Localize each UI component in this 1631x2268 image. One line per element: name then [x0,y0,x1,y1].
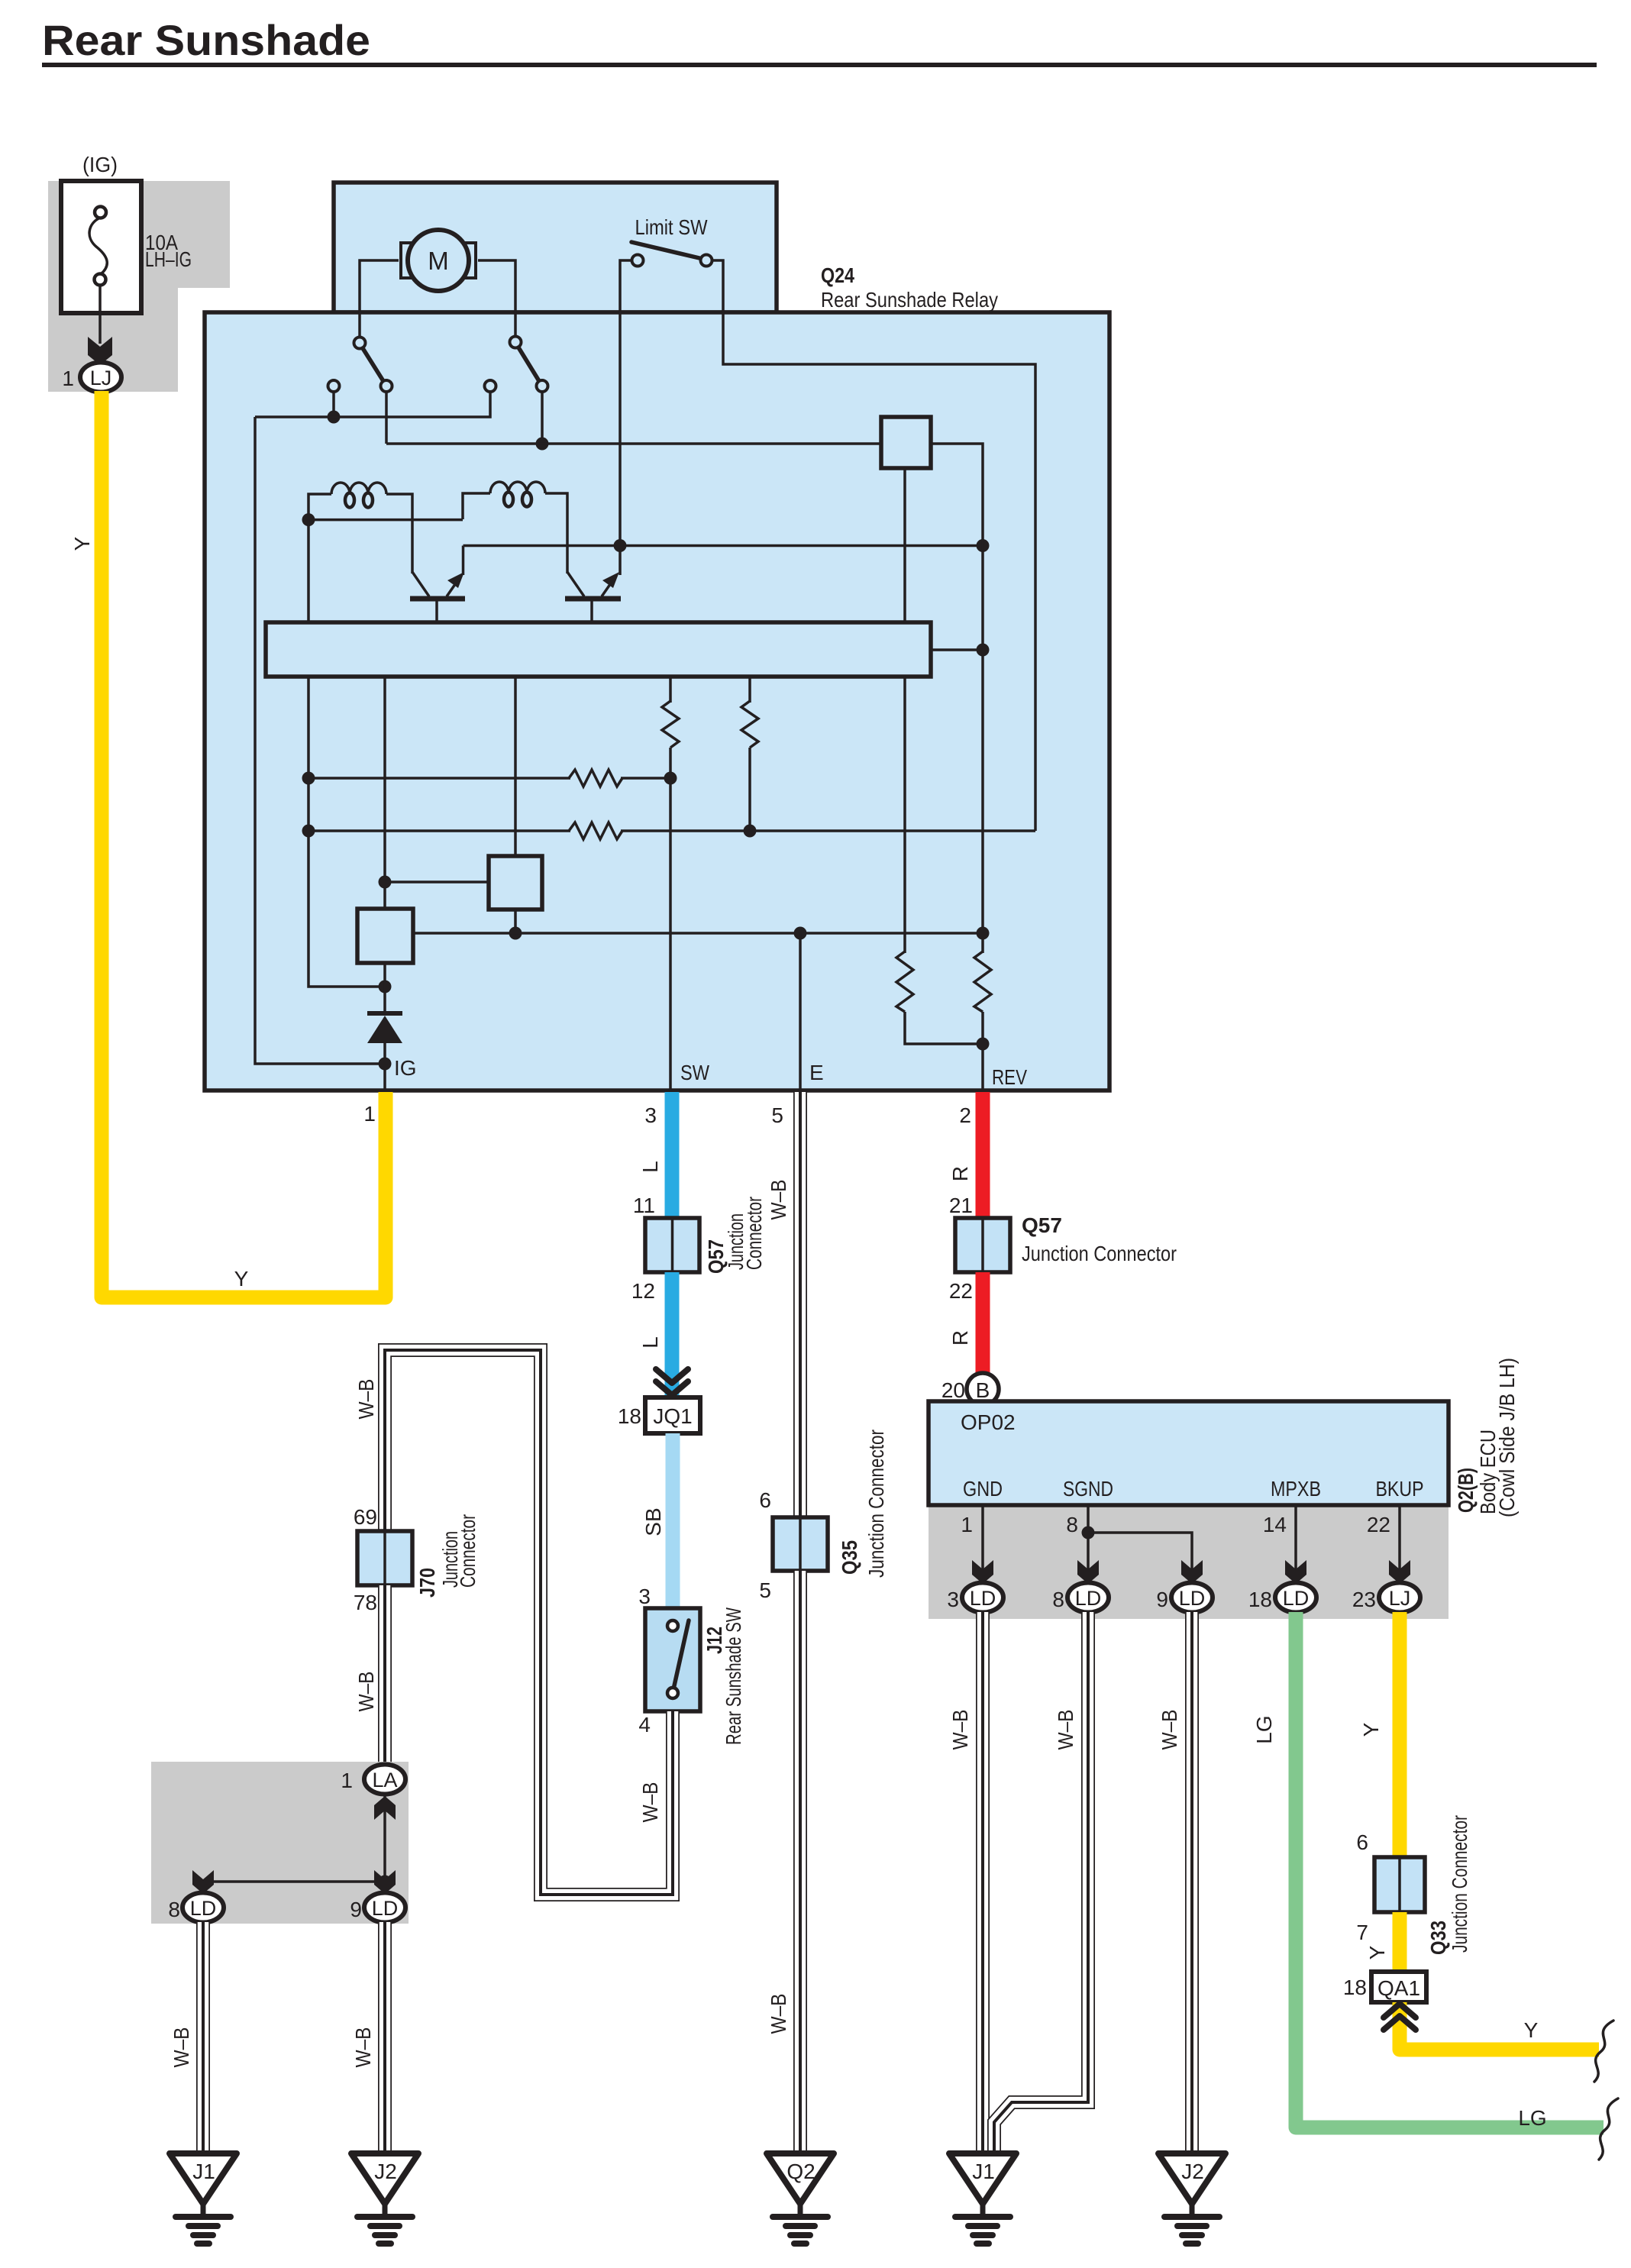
chevron arrow out of QA1 [1384,2004,1416,2030]
svg-text:J2: J2 [1181,2160,1204,2183]
svg-text:Q57: Q57 [1022,1213,1062,1237]
node IC right lead [977,644,990,657]
node B circle [967,1373,999,1405]
svg-text:L: L [638,1336,662,1349]
title underline [42,63,1597,67]
wire W-B LD8b elbow to J1 [994,1612,1088,2155]
svg-text:2: 2 [959,1103,971,1127]
svg-text:3: 3 [638,1585,651,1608]
SEC_RELAY [205,183,1109,1090]
node R2 rail1088 [744,825,757,838]
connector LJ 23 [1379,1583,1420,1613]
svg-text:5: 5 [759,1578,771,1602]
svg-text:W–B: W–B [638,1782,662,1823]
svg-text:8: 8 [168,1898,180,1921]
connector QA1 [1371,1972,1426,2002]
title: Rear Sunshade [42,16,1597,67]
svg-text:Q33: Q33 [1426,1921,1450,1955]
wire rail1222 [413,932,983,935]
svg-text:E: E [809,1061,824,1084]
svg-text:Rear Sunshade SW: Rear Sunshade SW [722,1607,745,1745]
svg-text:IG: IG [394,1056,417,1080]
svg-text:6: 6 [1356,1830,1368,1854]
svg-text:LH–IG: LH–IG [145,247,192,271]
svg-text:9: 9 [350,1898,362,1921]
svg-text:8: 8 [1052,1588,1064,1611]
svg-text:W–B: W–B [767,1994,790,2034]
svg-text:Rear Sunshade: Rear Sunshade [42,16,370,64]
node SW rail [664,772,677,785]
wire x675 IC bottom to box1 [514,677,517,858]
svg-text:1: 1 [363,1102,376,1126]
svg-text:23: 23 [1352,1588,1376,1611]
ground J2 right [1158,2153,1226,2244]
wire rail546 from left vertical to contact b2 [255,392,490,417]
wire SGND pin to LD8 [1087,1505,1090,1581]
body ECU grey area [929,1505,1449,1619]
wire R2 to rail1088 [748,748,751,832]
svg-text:Y: Y [1365,1945,1389,1959]
node rail1222 E branch [794,927,807,940]
svg-text:LJ: LJ [1389,1587,1411,1610]
wire limit-sw right contact to right side [712,260,1035,831]
svg-text:J2: J2 [374,2160,397,2183]
wire contact b1 down to rail581 [541,392,544,445]
wire SGND branch to LD9 [1088,1533,1192,1581]
wire x403 vertical from node to diode rail [308,520,385,987]
wire left vertical x334 to IG rail [255,417,385,1064]
svg-text:Q24: Q24 [821,263,854,287]
svg-text:LG: LG [1518,2106,1546,2130]
arrow into LD8 [1077,1560,1099,1584]
svg-text:Y: Y [1359,1722,1383,1737]
node emitter rail / REV vertical [977,539,990,552]
connector LD 8 [182,1893,224,1923]
node b1 on rail581 [536,438,549,451]
wire W-B LD8 to J1 [196,1922,210,2155]
node IG [379,1058,392,1071]
svg-text:Connector: Connector [456,1514,480,1588]
junction connector Q35 [773,1517,828,1571]
svg-text:18: 18 [1248,1588,1272,1611]
svg-text:W–B: W–B [948,1710,972,1750]
wire motor right to switch B [478,260,515,336]
transistor Q1 [410,546,465,625]
node rail1088 x404 [302,825,315,838]
ground Q2 [767,2153,834,2244]
svg-text:LG: LG [1252,1715,1276,1743]
wire BKUP pin to LJ23 [1398,1505,1401,1581]
svg-text:Y: Y [70,536,94,551]
svg-text:LA: LA [372,1769,397,1791]
wire contact a1 down to rail581 [385,392,388,444]
svg-text:LD: LD [970,1587,996,1610]
diode D1 [367,1013,402,1043]
svg-text:Limit SW: Limit SW [635,215,708,239]
grey junction area [151,1762,409,1924]
svg-text:Q2: Q2 [786,2160,815,2183]
relay switch A blade [363,348,383,381]
svg-text:5: 5 [771,1103,783,1127]
wire x1185 IC bottom to R5 [903,677,906,953]
wire E vertical [799,933,802,1090]
node rail1222 REV [977,927,990,940]
relay switch B contact b1 [537,380,548,392]
connector JQ1 [645,1397,700,1433]
wire branch left [203,1882,385,1892]
svg-text:W–B: W–B [351,2027,375,2068]
svg-text:Q35: Q35 [838,1540,861,1575]
svg-text:69: 69 [354,1505,377,1529]
arrow into LJ23 [1389,1560,1410,1584]
limit switch [631,215,712,267]
inductor L2 [490,482,545,507]
svg-text:M: M [428,247,449,275]
svg-text:Junction Connector: Junction Connector [864,1430,888,1578]
svg-text:W–B: W–B [170,2027,193,2068]
connector LD 8b [1067,1583,1109,1613]
wire W-B J70 to LA [378,1585,392,1765]
wire x504 IC bottom to box2 [383,677,386,910]
svg-text:MPXB: MPXB [1271,1477,1321,1501]
svg-text:Connector: Connector [742,1197,766,1270]
relay switch A contact a1 [381,380,392,392]
wire MPXB pin to LD18 [1294,1505,1297,1581]
junction connector J70 [357,1531,412,1585]
arrow into LD 9 [374,1870,396,1894]
svg-text:22: 22 [1367,1513,1390,1536]
svg-text:OP02: OP02 [961,1410,1016,1434]
svg-text:21: 21 [949,1194,973,1217]
svg-text:Rear Sunshade Relay: Rear Sunshade Relay [821,288,998,312]
fuse F 10A LH-IG box [61,181,141,313]
svg-text:3: 3 [947,1588,959,1611]
transistor Q2 [565,546,621,625]
wire rail1019 left part [308,777,570,780]
wire U2 right lead to REV vertical [931,444,983,953]
svg-text:(Cowl Side J/B LH): (Cowl Side J/B LH) [1495,1358,1519,1517]
node a2 [328,411,341,424]
wire rail1019 right part [621,777,670,780]
wire W-B LD3 to J1 [976,1612,990,2155]
connector LD 9 [364,1893,405,1923]
wire W-B LD9b to J2 [1185,1612,1199,2155]
svg-text:LD: LD [1075,1587,1102,1610]
svg-text:1: 1 [341,1769,353,1792]
wire Y yellow QA1 down and right [1400,2002,1599,2050]
node x504 rail1155 [379,876,392,889]
node U3 on rail1222 [509,927,522,940]
wire L2 left lead down to rail680 [463,493,490,519]
label Junction Connector vertical [724,1197,766,1270]
svg-text:Y: Y [234,1267,249,1291]
wire box2 bottom to diode [383,963,386,1016]
wire fuse to LJ [99,286,102,344]
arrow into LD3 [972,1560,993,1584]
relay switch B moving contact [510,337,522,348]
wire motor left to switch A [360,260,399,337]
svg-text:W–B: W–B [1158,1710,1181,1750]
node rail1019 x404 [302,772,315,785]
node R5/R6 join [977,1038,990,1051]
svg-text:3: 3 [644,1103,657,1127]
svg-text:LJ: LJ [90,367,112,389]
wire SB JQ1 to J12 [666,1433,680,1609]
svg-text:11: 11 [633,1194,655,1217]
wire rail1088 right part [621,829,1035,832]
svg-text:12: 12 [631,1279,655,1303]
wire Y yellow Q33 to QA1 [1393,1912,1407,1974]
svg-text:8: 8 [1066,1513,1078,1536]
svg-text:Q2(B): Q2(B) [1454,1468,1478,1513]
wire limit-sw left contact down [620,260,631,544]
resistor R5 [896,951,913,1012]
svg-text:J1: J1 [972,2160,995,2183]
wire W-B Q35 to ground Q2 [793,1571,807,2155]
relay switch B contact b2 [485,380,496,392]
wire IC right lead [931,648,983,651]
junction connector Q33 [1374,1857,1425,1912]
svg-text:7: 7 [1356,1921,1368,1944]
driver box U4 [357,909,413,963]
wire W-B LD9 to J2 [378,1922,392,2155]
svg-text:18: 18 [1343,1976,1367,1999]
connector LD 3 [962,1583,1003,1613]
svg-text:1: 1 [961,1513,973,1536]
svg-text:W–B: W–B [1054,1710,1077,1750]
break symbol LG [1599,2098,1618,2160]
node SGND branch [1082,1527,1095,1539]
SEC_BOTTOMRIGHT [948,1612,1618,2244]
fuse element [89,218,107,274]
wire rail1155 to U3 [385,880,489,884]
wire LG green LD18 down and right [1296,1612,1604,2127]
wire LA to node [383,1796,386,1882]
svg-text:L: L [638,1161,662,1173]
relay switch B blade [518,347,539,381]
wire rail581 to control box [386,442,881,445]
svg-text:SB: SB [641,1507,665,1536]
svg-text:1: 1 [62,367,74,390]
svg-text:REV: REV [992,1065,1027,1089]
svg-text:LD: LD [1179,1587,1206,1610]
wire U2 bottom vertical x1185 [903,468,906,622]
inductor L1 [331,483,386,508]
SEC_FUSE [48,153,230,393]
node diode top [379,981,392,993]
svg-text:Junction Connector: Junction Connector [1022,1242,1177,1265]
ground J1 left [170,2153,237,2244]
wire rail680 [308,518,463,520]
svg-text:SW: SW [680,1061,709,1084]
arrow into LD 8 [192,1870,214,1894]
svg-text:GND: GND [963,1477,1003,1501]
wire R5 bottom to REV vertical [905,1012,983,1044]
svg-text:W–B: W–B [354,1379,378,1420]
resistor R3 [569,770,622,787]
wire R1 to SW pin [669,748,672,1090]
svg-text:LD: LD [1283,1587,1310,1610]
resistor R4 [569,822,622,839]
relay switch A moving contact [354,338,366,349]
control IC box [266,622,931,677]
relay switch A contact a2 [328,380,340,392]
wire L1 left lead [308,494,331,519]
break symbol Y [1594,2021,1613,2082]
wire Y yellow LJ23 to Q33 [1393,1612,1407,1859]
driver box U3 [489,856,542,909]
wire U3 bottom lead [514,909,517,935]
arrow into LJ [88,337,112,365]
resistor R1 [662,701,679,748]
wire diode to IG pin [383,1042,386,1090]
label Junction Connector vertical [438,1514,480,1588]
wire R red Q57 to B [976,1272,990,1375]
chevron arrow into JQ1 [656,1369,688,1395]
svg-text:BKUP: BKUP [1376,1477,1424,1501]
wire contact a2 down [332,392,335,418]
svg-text:R: R [948,1330,972,1346]
svg-text:R: R [948,1166,972,1181]
svg-text:20: 20 [941,1378,965,1402]
wire GND pin to LD3 [981,1505,984,1581]
wire R6 to REV pin [981,1012,984,1090]
svg-text:6: 6 [759,1488,771,1512]
arrow up into LA [374,1796,396,1820]
ground J2 left [351,2153,418,2244]
svg-text:LD: LD [372,1897,399,1920]
body ECU box Q2(B) [929,1401,1449,1505]
wire W-B relay pin5 to Q35 [793,1092,807,1519]
wire x878 IC bottom to R1 [669,677,672,703]
wire L1 right lead to Q1 collector [386,494,412,573]
wire L2 right lead to Q2 collector [545,493,567,573]
svg-text:JQ1: JQ1 [653,1404,692,1428]
svg-text:B: B [976,1378,990,1402]
SEC_ECU [929,1358,1519,1619]
svg-text:18: 18 [618,1404,641,1428]
svg-text:Y: Y [1524,2018,1539,2042]
wire rail1088 left part [308,829,570,832]
wire L blue relay pin3 to Q57 [665,1092,680,1220]
wire W-B loop J12 to J70 [385,1350,673,1895]
svg-text:14: 14 [1263,1513,1287,1536]
svg-text:LD: LD [190,1897,217,1920]
pulse box U2 [881,417,931,468]
svg-text:W–B: W–B [354,1672,378,1712]
connector LD 18 [1275,1583,1316,1613]
svg-text:9: 9 [1156,1588,1168,1611]
svg-text:W–B: W–B [767,1180,790,1220]
node emitter rail / limit sw [614,539,627,552]
svg-text:78: 78 [354,1591,377,1614]
node L1 lead [302,513,315,526]
wire R red relay pin2 to Q57 [976,1092,990,1220]
svg-text:Junction Connector: Junction Connector [1448,1815,1471,1953]
connector LD 9b [1171,1583,1213,1613]
svg-text:J1: J1 [192,2160,215,2183]
resistor R6 [974,951,991,1012]
SEC_WIRES [70,391,1177,2244]
svg-text:QA1: QA1 [1377,1976,1420,2000]
svg-text:J70: J70 [415,1568,439,1598]
relay Q24 main box [205,312,1109,1090]
connector LJ [80,363,121,393]
junction block grey area [48,181,230,392]
switch J12 Rear Sunshade SW [645,1608,700,1711]
wire x982 IC bottom to R2 [748,677,751,703]
wire L blue Q57 to JQ1 [665,1272,680,1397]
svg-text:(IG): (IG) [82,153,118,176]
connector LA [364,1765,405,1795]
svg-text:4: 4 [638,1713,651,1737]
junction connector Q57 left [645,1218,699,1272]
SEC_BOTTOMLEFT [151,1762,418,2244]
motor M [401,230,476,291]
svg-text:SGND: SGND [1063,1477,1113,1501]
wire emitter rail y714 [463,544,983,548]
ground J1 right [949,2153,1016,2244]
arrow into LD18 [1285,1560,1306,1584]
relay Q24 upper compartment box [334,183,777,312]
junction connector Q57 right [955,1218,1010,1272]
node split [379,1875,392,1888]
wire Y from LJ to relay pin 1 [102,391,386,1297]
arrow into LD9 [1181,1560,1203,1584]
svg-text:22: 22 [949,1279,973,1303]
resistor R2 [741,701,758,748]
